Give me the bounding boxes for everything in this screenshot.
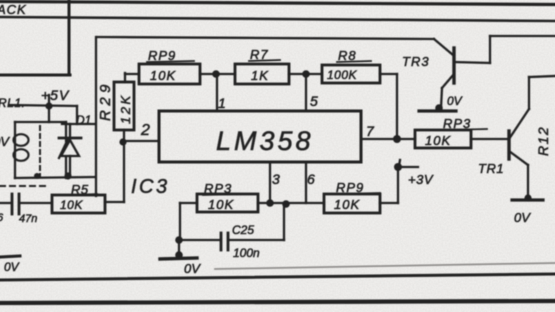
node junction D1 anode [64,172,71,179]
svg-text:1K: 1K [251,68,269,83]
pin 2 [140,122,150,139]
wire TR3 collector out [490,35,555,37]
wire left vertical drop [95,37,97,196]
wire R7 to R8 [289,73,322,75]
node junction pin5 [302,70,310,78]
wire R29 top to RP9 [125,73,139,82]
ground 0V TR3 emitter [419,94,463,111]
svg-text:R12: R12 [535,126,551,156]
wire pin 1 [216,74,218,111]
svg-text:0V: 0V [4,260,20,274]
svg-text:47n: 47n [19,213,37,225]
resistor R29 [114,82,134,130]
wire TR1 collector out [529,76,555,77]
transistor TR3 [441,36,490,108]
resistor RP9 label (bottom right) [335,180,380,195]
top-left box right edge [68,1,71,75]
transistor TR1 [509,77,529,198]
svg-text:10K: 10K [334,197,360,212]
svg-text:D1: D1 [76,113,91,127]
resistor R8 [322,65,380,83]
resistor RP9 [139,64,200,84]
faint scan line above bottom frame [215,263,555,269]
label partial 6 [0,212,4,224]
svg-text:7: 7 [366,123,375,139]
wire +5V to relay and diode top [10,105,95,124]
wire C25 right up to pin6 line [230,204,284,240]
svg-text:5: 5 [310,93,318,109]
svg-text:1: 1 [218,95,226,111]
ground 0V bottom-left [0,256,20,274]
svg-text:0V: 0V [447,94,463,108]
resistor RP3 (bottom) [197,194,258,212]
capacitor C25 [221,233,228,250]
svg-text:12K: 12K [118,93,133,124]
svg-text:R29: R29 [97,80,114,121]
wire R5 right to pin2 node [105,142,124,202]
frame bottom line 1 [0,274,555,280]
resistor RP3 label (right) [442,116,487,131]
svg-text:3: 3 [272,171,280,187]
transistor TR3 label [402,54,430,69]
relay RL1 coil [14,122,69,178]
label R12 (rotated) [535,126,551,156]
svg-text:0V: 0V [0,134,10,149]
node junction +3V [394,160,402,171]
wire RP3 to TR1 base [471,138,508,140]
capacitor 47n [0,194,52,214]
diode D1 [59,124,81,177]
pin 7 [366,123,375,139]
pin 6 [307,171,315,187]
svg-text:0V: 0V [514,210,531,225]
node junction pin7/R8 [393,135,401,143]
resistor RP3 label (bottom) [203,181,248,196]
resistor R7 label [249,47,280,62]
top-left box bottom edge [0,74,70,77]
svg-text:TR1: TR1 [478,161,504,176]
wire RP9 right to +3V node [380,167,398,203]
wire top rail from left drop to TR3 base [97,37,453,55]
wire RP3 left to ground node [180,203,197,240]
wire pin 2 [123,140,159,142]
ground 0V under RP3 [160,240,201,276]
node junction C25 left [175,236,183,244]
wire node to C25 [180,239,219,241]
svg-text:100K: 100K [327,68,358,82]
svg-text:100n: 100n [233,246,260,260]
value 47n [19,213,37,225]
svg-text:10K: 10K [150,68,176,83]
label ACK (cut-off connector name) [0,2,27,17]
wire R29 bottom to pin2 node [123,130,125,142]
dashed boundary line [0,185,48,187]
svg-text:+5V: +5V [41,87,70,103]
svg-text:IC3: IC3 [131,176,170,198]
frame bottom line 2 [0,301,555,303]
resistor RP9 (bottom right) [324,194,380,213]
svg-text:ACK: ACK [0,2,27,17]
resistor R29 label (rotated) [97,80,114,121]
node junction +5V/relay/diode [45,102,52,109]
pin 3 [272,171,280,187]
wire relay/diode bottom edge [15,173,95,179]
wire pin 3 stub [269,162,271,203]
resistor R5 [52,195,105,213]
svg-text:2: 2 [140,122,150,139]
pin 5 [310,93,318,109]
ground 0V TR1 emitter [512,194,543,225]
svg-text:10K: 10K [425,133,451,148]
resistor R5 label [71,182,97,197]
wire RP9 to R7 [200,73,235,75]
svg-text:0V: 0V [184,261,201,276]
op-amp IC3 LM358 [159,111,361,162]
pin 1 [218,95,226,111]
wire pin 6 stub [305,162,307,203]
node junction TR3 emitter [435,104,443,112]
resistor RP9 label [147,48,194,63]
label C25 [232,223,254,237]
svg-text:6: 6 [307,171,315,187]
label IC3 [131,176,170,198]
wire pin 7 out [361,138,415,140]
transistor TR1 label [478,161,504,176]
diode D1 label [76,113,91,127]
wire pin3/pin6 bottom bus [258,202,324,204]
node junction pin3 [266,199,274,207]
power +3V [398,167,434,187]
label partial V (cut off) [0,134,10,149]
svg-text:+3V: +3V [408,172,434,187]
resistor R7 [235,64,289,84]
node junction pin1 [212,70,220,78]
svg-text:LM358: LM358 [216,126,314,156]
node junction C25 right [282,200,290,208]
wire R8 right to pin7 node [380,74,397,139]
value 100n [233,246,260,260]
power +5V [41,87,70,104]
frame top line 1 [0,2,555,5]
wire pin 5 [305,74,307,111]
svg-text:TR3: TR3 [402,54,430,69]
svg-text:10K: 10K [208,197,234,212]
relay RL1 label [0,96,25,110]
svg-text:C25: C25 [232,223,254,237]
node junction pin2/R29/R5 [119,138,126,145]
frame top line 2 [0,17,555,21]
resistor R8 label [337,48,371,63]
svg-text:10K: 10K [60,198,83,212]
resistor RP3 (right) [415,130,471,148]
svg-text:RL1.: RL1. [0,96,25,110]
